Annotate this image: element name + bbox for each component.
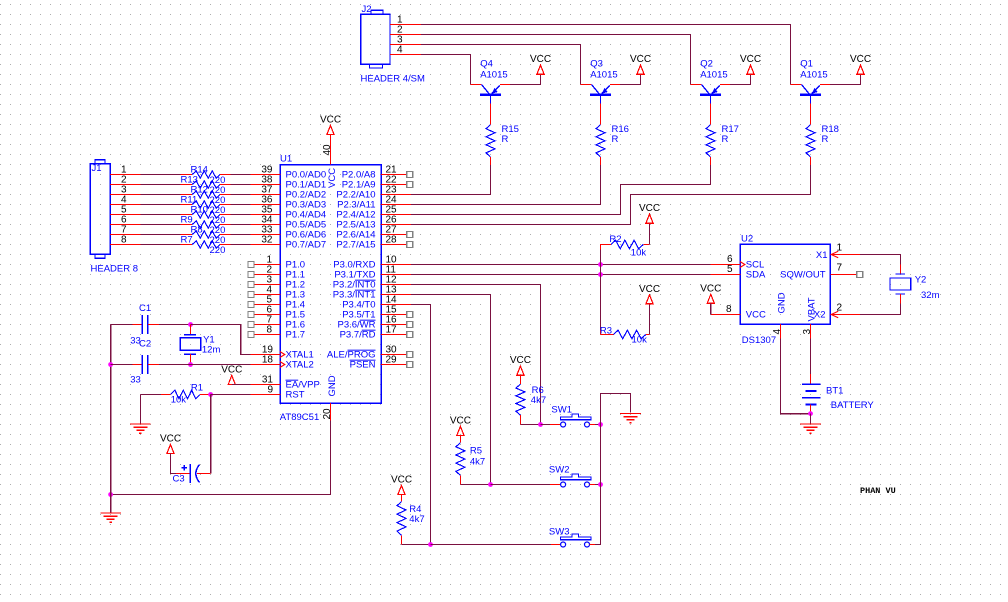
J1 pin 8 [110, 244, 140, 246]
J1 pin 1 [110, 174, 140, 176]
svg-text:PHAN VU: PHAN VU [860, 486, 896, 496]
wire U2 GND down [781, 339, 811, 414]
wire J1.6 to R9 [140, 224, 180, 226]
svg-text:Q1: Q1 [800, 59, 813, 70]
wire R7 to U1 pin32 [230, 244, 250, 246]
wire R16 to U1 pin24 [411, 165, 600, 204]
svg-text:SW1: SW1 [551, 405, 572, 416]
svg-text:P1.7: P1.7 [286, 330, 306, 341]
resistor R1 10k [140, 394, 161, 396]
U1 pin 14 P3.4/T0 [381, 304, 411, 306]
transistor Q2 (A1015 PNP) [691, 85, 730, 104]
VCC symbol at R4 [398, 486, 405, 495]
svg-text:Q3: Q3 [590, 59, 603, 70]
wire SDA (U1 pin11 to U2 pin5) [411, 274, 710, 276]
capacitor C1 33 [133, 324, 143, 326]
VCC symbol at R2 [646, 214, 653, 223]
wire J1.1 to R14 [140, 174, 180, 176]
VCC symbol at EA/VPP [228, 376, 235, 385]
J1 pin 6 [110, 224, 140, 226]
junction SW2 left [488, 482, 493, 487]
connector J2 [361, 4, 425, 85]
svg-text:VCC: VCC [391, 475, 412, 486]
junction SW2 right [598, 482, 603, 487]
svg-text:VCC: VCC [746, 310, 766, 321]
U1 pin 7 P1.6 [254, 324, 280, 326]
wire SCL (U1 pin10 to U2 pin6) [411, 264, 710, 266]
svg-text:10k: 10k [632, 335, 648, 346]
U1 pin 16 P3.6/WR [381, 324, 407, 326]
svg-text:VCC: VCC [850, 54, 871, 65]
resistor R5 4k7 [459, 435, 461, 442]
wire node to SW3 [431, 544, 552, 546]
U1 pin 5 P1.4 [254, 304, 280, 306]
crystal Y1 12m [190, 325, 192, 335]
wire Q3 emitter to VCC [620, 74, 641, 84]
svg-text:4k7: 4k7 [470, 457, 485, 468]
U2 pin 8 VCC [711, 314, 741, 316]
J2 pin 1 [390, 24, 421, 26]
VCC symbol at U2 pin 8 [707, 294, 714, 303]
svg-text:P2.7/A15: P2.7/A15 [336, 240, 375, 251]
U1 pin 2 P1.1 [254, 274, 280, 276]
J2 pin 4 [390, 54, 421, 56]
U1 pin 22 P2.1/A9 [381, 184, 407, 186]
wire R13 to U1 pin38 [230, 184, 250, 186]
wire RST node to U1 RST [211, 394, 251, 396]
wire U2 VBAT to BT1 [810, 339, 812, 374]
svg-text:J2: J2 [362, 4, 372, 15]
wire R4 to SW3 node [402, 544, 431, 546]
svg-text:P3.7/RD: P3.7/RD [340, 330, 376, 341]
svg-text:VCC: VCC [327, 168, 338, 188]
U2 pin 5 SDA [710, 274, 740, 276]
resistor R6 4k7 [519, 375, 521, 384]
svg-text:33: 33 [130, 375, 141, 386]
wire U1 pin12 INT0 to SW1 node [411, 285, 540, 425]
svg-text:VCC: VCC [639, 203, 660, 214]
U2 pin 7 SQW/OUT [830, 274, 857, 276]
wire J2.3 to Q3 [421, 45, 581, 85]
U2 pin 3 VBAT [810, 324, 812, 338]
svg-text:12m: 12m [202, 345, 221, 356]
wire R8 to U1 pin33 [230, 234, 250, 236]
resistor R13 220 [181, 184, 193, 186]
svg-text:32: 32 [261, 235, 273, 246]
wire C1 row to XTAL1 [191, 325, 251, 355]
capacitor C2 33 [133, 364, 143, 366]
svg-text:SW2: SW2 [549, 465, 570, 476]
svg-text:R: R [502, 134, 509, 145]
svg-text:C2: C2 [139, 339, 151, 350]
svg-text:VCC: VCC [530, 54, 551, 65]
junction SW1 right [598, 422, 603, 427]
svg-text:8: 8 [726, 304, 732, 315]
svg-text:BT1: BT1 [826, 386, 843, 397]
VCC symbol at R5 [457, 426, 464, 435]
svg-text:220: 220 [210, 245, 226, 256]
svg-text:R2: R2 [609, 234, 621, 245]
wire VCC to C3 [171, 454, 177, 474]
wire U1 GND to ground rail [111, 421, 331, 495]
svg-text:X1: X1 [816, 250, 828, 261]
IC U2 DS1307 body [740, 234, 830, 347]
svg-text:9: 9 [267, 385, 273, 396]
svg-text:SDA: SDA [746, 270, 766, 281]
U2 pin 6 SCL [710, 264, 740, 266]
junction BT1 ground [808, 411, 813, 416]
wire rail to ground [110, 495, 112, 514]
wire J2.1 to Q1 [421, 25, 791, 85]
J1 pin 4 [110, 204, 140, 206]
switch SW3 [551, 534, 595, 547]
junction RST node [208, 392, 213, 397]
switch SW2 [550, 474, 595, 487]
resistor R15 [490, 103, 492, 124]
U1 pin 18 XTAL2 [251, 364, 281, 366]
wire R6 to SW1 node [520, 424, 540, 426]
resistor R10 220 [181, 214, 193, 216]
resistor R4 4k7 [401, 495, 403, 502]
wire J1.3 to R12 [140, 194, 180, 196]
ground symbol at R1 [130, 423, 151, 425]
wire R3 to VCC [649, 304, 651, 335]
wire J1.8 to R7 [140, 244, 180, 246]
svg-text:1: 1 [837, 243, 843, 254]
J1 pin 5 [110, 214, 140, 216]
ground symbol bottom-left [100, 512, 121, 514]
svg-text:10k: 10k [171, 395, 187, 406]
U1 pin 19 XTAL1 [251, 354, 281, 356]
VCC symbol at Q1 [857, 65, 864, 74]
wire left rail C1-C2 [110, 325, 112, 495]
resistor R8 220 [181, 234, 193, 236]
svg-text:17: 17 [386, 325, 398, 336]
U1 pin 12 P3.2/INT0 [381, 284, 411, 286]
U1 pin 34 P0.5/AD5 [250, 224, 280, 226]
svg-text:RST: RST [286, 390, 305, 401]
svg-text:VCC: VCC [740, 54, 761, 65]
wire VCC to EA/VPP [232, 384, 251, 386]
wire J2.4 to Q4 [421, 55, 471, 85]
U1 pin 21 P2.0/A8 [381, 174, 407, 176]
svg-text:C3: C3 [173, 474, 185, 485]
wire switch bus [595, 394, 631, 545]
wire BT1 to ground [810, 414, 812, 424]
svg-text:R5: R5 [470, 446, 482, 457]
transistor Q1 (A1015 PNP) [791, 85, 830, 104]
U1 pin 1 P1.0 [254, 264, 280, 266]
svg-text:32m: 32m [921, 290, 940, 301]
VCC symbol at Q4 [537, 65, 544, 74]
svg-text:7: 7 [837, 263, 843, 274]
J1 pin 2 [110, 184, 140, 186]
U1 pin 11 P3.1/TXD [381, 274, 411, 276]
svg-text:29: 29 [386, 355, 398, 366]
U1 pin 31 EA/VPP [251, 384, 281, 386]
U1 pin 32 P0.7/AD7 [250, 244, 280, 246]
resistor R3 10k [600, 330, 602, 335]
svg-text:DS1307: DS1307 [742, 335, 776, 346]
resistor R12 220 [181, 194, 193, 196]
svg-text:J1: J1 [92, 163, 102, 174]
wire R12 to U1 pin37 [230, 194, 250, 196]
U1 pin 15 P3.5/T1 [381, 314, 407, 316]
junction Y1 bottom [188, 362, 193, 367]
junction Y1 top [188, 322, 193, 327]
svg-text:4k7: 4k7 [531, 395, 546, 406]
wire node to SW1 [541, 424, 551, 426]
wire Q1 emitter to VCC [830, 74, 861, 84]
wire R2 node [600, 250, 602, 275]
svg-text:SW3: SW3 [549, 527, 570, 538]
U1 pin 40 VCC [330, 135, 332, 165]
J1 pin 3 [110, 194, 140, 196]
U1 pin 4 P1.3 [254, 294, 280, 296]
capacitor C3 electrolytic [176, 473, 190, 475]
wire R15 to U1 pin23 [411, 165, 490, 194]
wire R11 to U1 pin36 [230, 204, 250, 206]
svg-text:SQW/OUT: SQW/OUT [780, 270, 826, 281]
wire R17 to U1 pin25 [411, 165, 710, 214]
J2 pin 3 [390, 44, 421, 46]
VCC symbol at C3 [167, 445, 174, 454]
resistor R2 10k [601, 245, 612, 250]
wire U2 X1 to Y2 [860, 255, 901, 265]
VCC symbol at Q3 [637, 65, 644, 74]
switch SW1 [550, 414, 595, 427]
U1 pin 24 P2.3/A11 [381, 204, 411, 206]
connector J1 [90, 160, 140, 275]
svg-text:VCC: VCC [510, 355, 531, 366]
wire U1 pin13 INT1 to SW2 node [411, 295, 490, 485]
wire R2 to VCC [649, 223, 651, 244]
VCC symbol at R6 [517, 366, 524, 375]
junction SCL R2 [598, 262, 603, 267]
U1 pin 33 P0.6/AD6 [250, 234, 280, 236]
U1 pin 38 P0.1/AD1 [250, 184, 280, 186]
VCC symbol at Q2 [747, 65, 754, 74]
wire R18 to U1 pin26 [411, 165, 810, 224]
resistor R18 [810, 103, 812, 124]
U1 pin 27 P2.6/A14 [381, 234, 407, 236]
svg-text:40: 40 [322, 144, 333, 156]
wire SDA to R3 [600, 275, 602, 331]
wire Q4 emitter to VCC [510, 74, 541, 84]
svg-text:U1: U1 [280, 154, 292, 165]
U1 pin 39 P0.0/AD0 [250, 174, 280, 176]
svg-text:U2: U2 [741, 234, 753, 245]
resistor R11 220 [181, 204, 193, 206]
junction C2 left [108, 362, 113, 367]
U2 pin 2 X2 [830, 314, 860, 316]
svg-text:VCC: VCC [639, 284, 660, 295]
ground symbol at switch bus [620, 413, 641, 415]
svg-text:VCC: VCC [630, 54, 651, 65]
junction ground rail [108, 492, 113, 497]
svg-text:P0.7/AD7: P0.7/AD7 [286, 240, 327, 251]
resistor R17 [710, 103, 712, 124]
U1 pin 13 P3.3/INT1 [381, 294, 411, 296]
svg-text:A1015: A1015 [700, 70, 727, 81]
svg-text:4: 4 [772, 329, 783, 335]
wire C1 to Y1 top [159, 324, 190, 326]
junction SDA R3 [598, 272, 603, 277]
svg-text:Q2: Q2 [700, 59, 713, 70]
svg-text:A1015: A1015 [800, 70, 827, 81]
svg-text:R1: R1 [191, 383, 203, 394]
svg-text:2: 2 [837, 303, 843, 314]
IC U1 AT89C51 body [280, 154, 381, 424]
svg-text:3: 3 [802, 329, 813, 335]
transistor Q4 (A1015 PNP) [471, 85, 510, 104]
wire J1.4 to R11 [140, 204, 180, 206]
svg-text:5: 5 [727, 264, 733, 275]
wire RST node down to C3 [210, 395, 212, 474]
U1 pin 17 P3.7/RD [381, 334, 407, 336]
svg-text:VCC: VCC [221, 365, 242, 376]
U1 pin 28 P2.7/A15 [381, 244, 407, 246]
VCC symbol at R3 [646, 295, 653, 304]
svg-text:C1: C1 [139, 303, 151, 314]
J2 pin 2 [390, 34, 421, 36]
U1 pin 23 P2.2/A10 [381, 194, 411, 196]
U1 pin 6 P1.5 [254, 314, 280, 316]
wire rail to C2 [111, 364, 133, 366]
svg-text:BATTERY: BATTERY [831, 400, 875, 411]
svg-text:28: 28 [386, 235, 398, 246]
svg-text:AT89C51: AT89C51 [280, 412, 319, 423]
svg-text:VCC: VCC [450, 415, 471, 426]
U1 pin 29 PSEN [381, 364, 407, 366]
svg-text:4k7: 4k7 [409, 514, 424, 525]
U1 pin 26 P2.5/A13 [381, 224, 411, 226]
wire R9 to U1 pin34 [230, 224, 250, 226]
wire R5 to SW2 node [460, 484, 490, 486]
svg-text:VCC: VCC [700, 283, 721, 294]
svg-text:Q4: Q4 [480, 59, 493, 70]
junction SW3 left [428, 542, 433, 547]
U1 pin 30 ALE/PROG [381, 354, 407, 356]
svg-text:A1015: A1015 [480, 70, 507, 81]
svg-text:R: R [822, 134, 829, 145]
VCC symbol at U1 pin 40 [327, 126, 334, 135]
wire J1.2 to R13 [140, 184, 180, 186]
U1 pin 8 P1.7 [254, 334, 280, 336]
svg-text:10k: 10k [631, 248, 647, 259]
battery BT1 [810, 374, 812, 384]
wire SW1 to bus [595, 424, 601, 426]
wire node to SW2 [491, 484, 551, 486]
svg-text:R: R [722, 134, 729, 145]
wire U1 pin14 T0 to SW3 node [411, 305, 430, 545]
svg-text:4: 4 [397, 45, 403, 56]
J1 pin 7 [110, 234, 140, 236]
crystal Y2 32m [900, 264, 902, 274]
wire Y2 to U2 X2 [860, 303, 901, 314]
wire J2.2 to Q2 [421, 35, 691, 85]
wire VCC to U2 pin 8 [710, 303, 712, 314]
wire SW2 to bus [595, 484, 601, 486]
svg-text:GND: GND [327, 375, 338, 396]
svg-text:18: 18 [262, 355, 274, 366]
U2 pin 4 GND [780, 324, 782, 338]
wire J1.5 to R10 [140, 214, 180, 216]
svg-text:HEADER 8: HEADER 8 [91, 264, 139, 275]
U2 pin 1 X1 [830, 254, 860, 256]
wire R1 to ground [139, 395, 141, 425]
resistor R14 220 [181, 174, 193, 176]
ground symbol at BT1 [800, 423, 821, 425]
wire R14 to U1 pin39 [230, 174, 250, 176]
resistor R9 220 [181, 224, 193, 226]
transistor Q3 (A1015 PNP) [581, 85, 620, 104]
svg-text:HEADER 4/SM: HEADER 4/SM [361, 74, 425, 85]
svg-text:VCC: VCC [320, 115, 341, 126]
svg-text:PSEN: PSEN [350, 360, 376, 371]
resistor R7 220 [181, 244, 193, 246]
wire C2 row to XTAL2 [159, 364, 251, 366]
junction SW1 left [538, 422, 543, 427]
svg-text:20: 20 [322, 408, 333, 420]
U1 pin 3 P1.2 [254, 284, 280, 286]
svg-text:VBAT: VBAT [807, 297, 818, 321]
svg-text:Y2: Y2 [915, 275, 927, 286]
svg-text:GND: GND [777, 292, 788, 313]
U1 pin 37 P0.2/AD2 [250, 194, 280, 196]
U1 pin 25 P2.4/A12 [381, 214, 411, 216]
svg-text:VCC: VCC [160, 434, 181, 445]
svg-text:R: R [612, 134, 619, 145]
svg-text:8: 8 [266, 325, 272, 336]
wire rail to C1 [111, 324, 133, 326]
svg-text:A1015: A1015 [590, 70, 617, 81]
svg-text:8: 8 [121, 235, 127, 246]
wire Q2 emitter to VCC [730, 74, 751, 84]
svg-text:R3: R3 [600, 326, 612, 337]
svg-text:R10: R10 [191, 205, 208, 216]
wire J1.7 to R8 [140, 234, 180, 236]
U1 pin 20 GND [330, 403, 332, 421]
U1 pin 35 P0.4/AD4 [250, 214, 280, 216]
wire R10 to U1 pin35 [230, 214, 250, 216]
svg-text:XTAL2: XTAL2 [286, 360, 314, 371]
U1 pin 36 P0.3/AD3 [250, 204, 280, 206]
U1 pin 9 RST [251, 394, 281, 396]
svg-text:R7: R7 [181, 235, 193, 246]
resistor R16 [600, 103, 602, 124]
U1 pin 10 P3.0/RXD [381, 264, 411, 266]
